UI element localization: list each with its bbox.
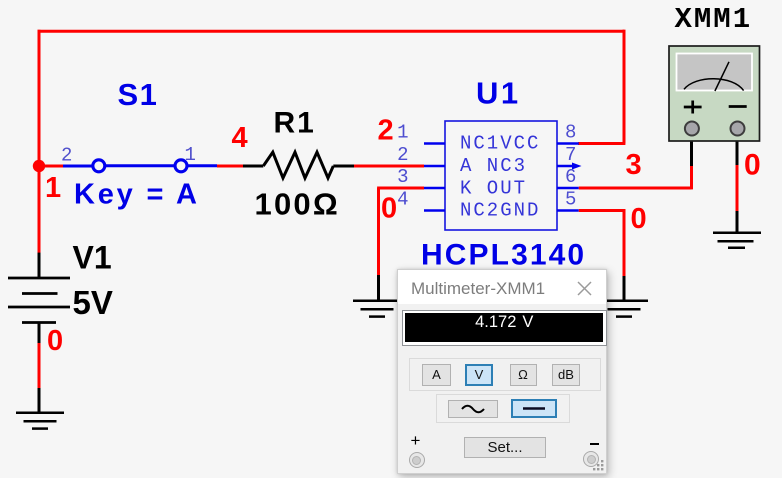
ground symbol pin 5: [600, 301, 648, 317]
dialog mode group frame: [409, 358, 601, 391]
resistor R1: [243, 152, 355, 178]
label V1: [73, 240, 112, 276]
dialog plus marking: [411, 431, 421, 451]
svg-text:S1: S1: [118, 77, 159, 112]
U1 pin names row 4: [460, 200, 540, 222]
wire OUT vertical black to plus terminal: [690, 136, 693, 166]
button Set: [464, 437, 546, 458]
svg-text:2: 2: [61, 145, 72, 167]
battery V1 bottom lead black: [38, 323, 41, 345]
wire pin 5 vertical red: [623, 209, 626, 277]
net label 0 battery: [47, 325, 63, 357]
U1 pin names row 3: [460, 177, 527, 199]
IC U1 HCPL3140 body: [445, 121, 557, 230]
XMM1 minus terminal: [731, 122, 745, 136]
button V selected: [465, 364, 493, 386]
ground lead below pin K: [377, 275, 380, 300]
wire net1 vertical left: [38, 30, 41, 254]
label XMM1: [675, 3, 753, 36]
dialog minus terminal: [583, 451, 599, 467]
label S1: [118, 77, 159, 112]
node 1 junction dot: [33, 160, 45, 172]
svg-text:2: 2: [397, 144, 408, 166]
pin number 8: [565, 122, 576, 144]
pin 1 stub: [424, 142, 445, 145]
svg-text:4: 4: [232, 122, 248, 154]
pin 6 stub: [557, 187, 579, 190]
button DC selected: [511, 399, 557, 418]
svg-text:Key = A: Key = A: [74, 179, 200, 211]
XMM1 plus terminal: [685, 122, 699, 136]
svg-text:1: 1: [185, 144, 196, 166]
dialog title bar: [398, 270, 606, 304]
switch pin number 1: [185, 144, 196, 166]
pin 8 stub: [557, 142, 579, 145]
ground lead battery: [38, 388, 41, 412]
svg-text:A NC3: A NC3: [460, 155, 527, 177]
svg-text:V1: V1: [73, 240, 112, 276]
svg-text:7: 7: [565, 144, 576, 166]
svg-text:HCPL3140: HCPL3140: [421, 239, 586, 272]
svg-text:NC2GND: NC2GND: [460, 200, 540, 222]
ground lead XMM1: [736, 211, 739, 233]
svg-text:0: 0: [744, 149, 761, 182]
svg-text:NC1VCC: NC1VCC: [460, 133, 540, 155]
dialog signal group frame: [436, 394, 570, 423]
wire net 0 vertical at pin K: [377, 188, 380, 276]
svg-text:6: 6: [565, 166, 576, 188]
pin 5 stub: [557, 209, 579, 212]
battery V1 top lead: [38, 253, 41, 278]
pin number 2: [397, 144, 408, 166]
svg-text:5V: 5V: [73, 284, 113, 321]
wire pin 8 horizontal: [578, 142, 625, 145]
value 100ohm: [255, 187, 340, 222]
switch pin number 2: [61, 145, 72, 167]
XMM1 plus marking: [684, 101, 702, 114]
wire net1 right vertical to pin 8: [623, 30, 626, 144]
ground symbol XMM1: [713, 233, 761, 248]
pin number 5: [565, 189, 576, 211]
ground symbol battery: [16, 413, 64, 429]
switch S1: [63, 160, 217, 172]
net label 3: [626, 149, 642, 181]
svg-text:1: 1: [45, 172, 61, 204]
label U1: [476, 76, 521, 111]
multimeter dialog window: [397, 269, 607, 474]
button A: [422, 364, 451, 386]
ground symbol pin K: [353, 301, 401, 317]
dialog close button: [577, 281, 592, 296]
pin 3 stub: [424, 187, 445, 190]
svg-text:3: 3: [626, 149, 642, 181]
svg-text:8: 8: [565, 122, 576, 144]
net label 0 pin 5: [631, 203, 647, 235]
svg-text:4: 4: [397, 189, 408, 211]
net label 4: [232, 122, 248, 154]
ground lead below pin 5: [623, 276, 626, 300]
XMM1 minus marking: [729, 105, 747, 108]
svg-text:0: 0: [631, 203, 647, 235]
svg-text:0: 0: [381, 193, 397, 225]
dialog reading display 4.172 V: [402, 310, 608, 346]
svg-text:100Ω: 100Ω: [255, 187, 340, 222]
multimeter XMM1 minus lead black upper: [736, 136, 739, 166]
dialog plus terminal: [409, 452, 425, 468]
svg-text:R1: R1: [274, 107, 316, 140]
wire net1 top horizontal: [38, 30, 625, 33]
svg-text:K OUT: K OUT: [460, 177, 527, 199]
button dB: [552, 364, 580, 386]
wire pin 6 OUT horizontal: [579, 187, 692, 190]
svg-text:U1: U1: [476, 76, 521, 111]
pin 7 stub with arrow: [557, 163, 582, 170]
net label 1: [45, 172, 61, 204]
svg-text:1: 1: [397, 122, 408, 144]
wire net 0 horizontal to pin K: [377, 187, 424, 190]
wire net 2 to pin A: [354, 165, 424, 168]
wire OUT vertical red: [690, 165, 693, 189]
dialog resize grip: [593, 460, 605, 472]
button ohm: [510, 364, 537, 386]
svg-text:2: 2: [378, 115, 394, 147]
svg-text:5: 5: [565, 189, 576, 211]
net label 2: [378, 115, 394, 147]
multimeter XMM1 instrument body: [669, 46, 760, 141]
U1 pin names row 1: [460, 133, 540, 155]
pin number 3: [397, 166, 408, 188]
pin number 7: [565, 144, 576, 166]
pin 4 stub: [424, 209, 445, 212]
svg-text:XMM1: XMM1: [675, 3, 753, 36]
battery V1 plates: [8, 278, 70, 323]
value 5V: [73, 284, 113, 321]
wire net 0 battery red: [38, 343, 41, 389]
pin number 6: [565, 166, 576, 188]
label R1: [274, 107, 316, 140]
wire node 1 to switch: [39, 165, 63, 168]
net label 0 pin K: [381, 193, 397, 225]
wire XMM1 minus red: [736, 165, 739, 212]
pin number 4: [397, 189, 408, 211]
net label 0 XMM1: [744, 149, 761, 182]
wire net 4: [217, 165, 244, 168]
button AC sine: [448, 400, 498, 418]
pin 2 stub: [424, 165, 445, 168]
wire pin 5 horizontal: [579, 209, 626, 212]
value HCPL3140: [421, 239, 586, 272]
U1 pin names row 2: [460, 155, 527, 177]
dialog minus marking: [590, 443, 600, 445]
label Key = A: [74, 179, 200, 211]
pin number 1: [397, 122, 408, 144]
svg-text:3: 3: [397, 166, 408, 188]
svg-text:0: 0: [47, 325, 63, 357]
